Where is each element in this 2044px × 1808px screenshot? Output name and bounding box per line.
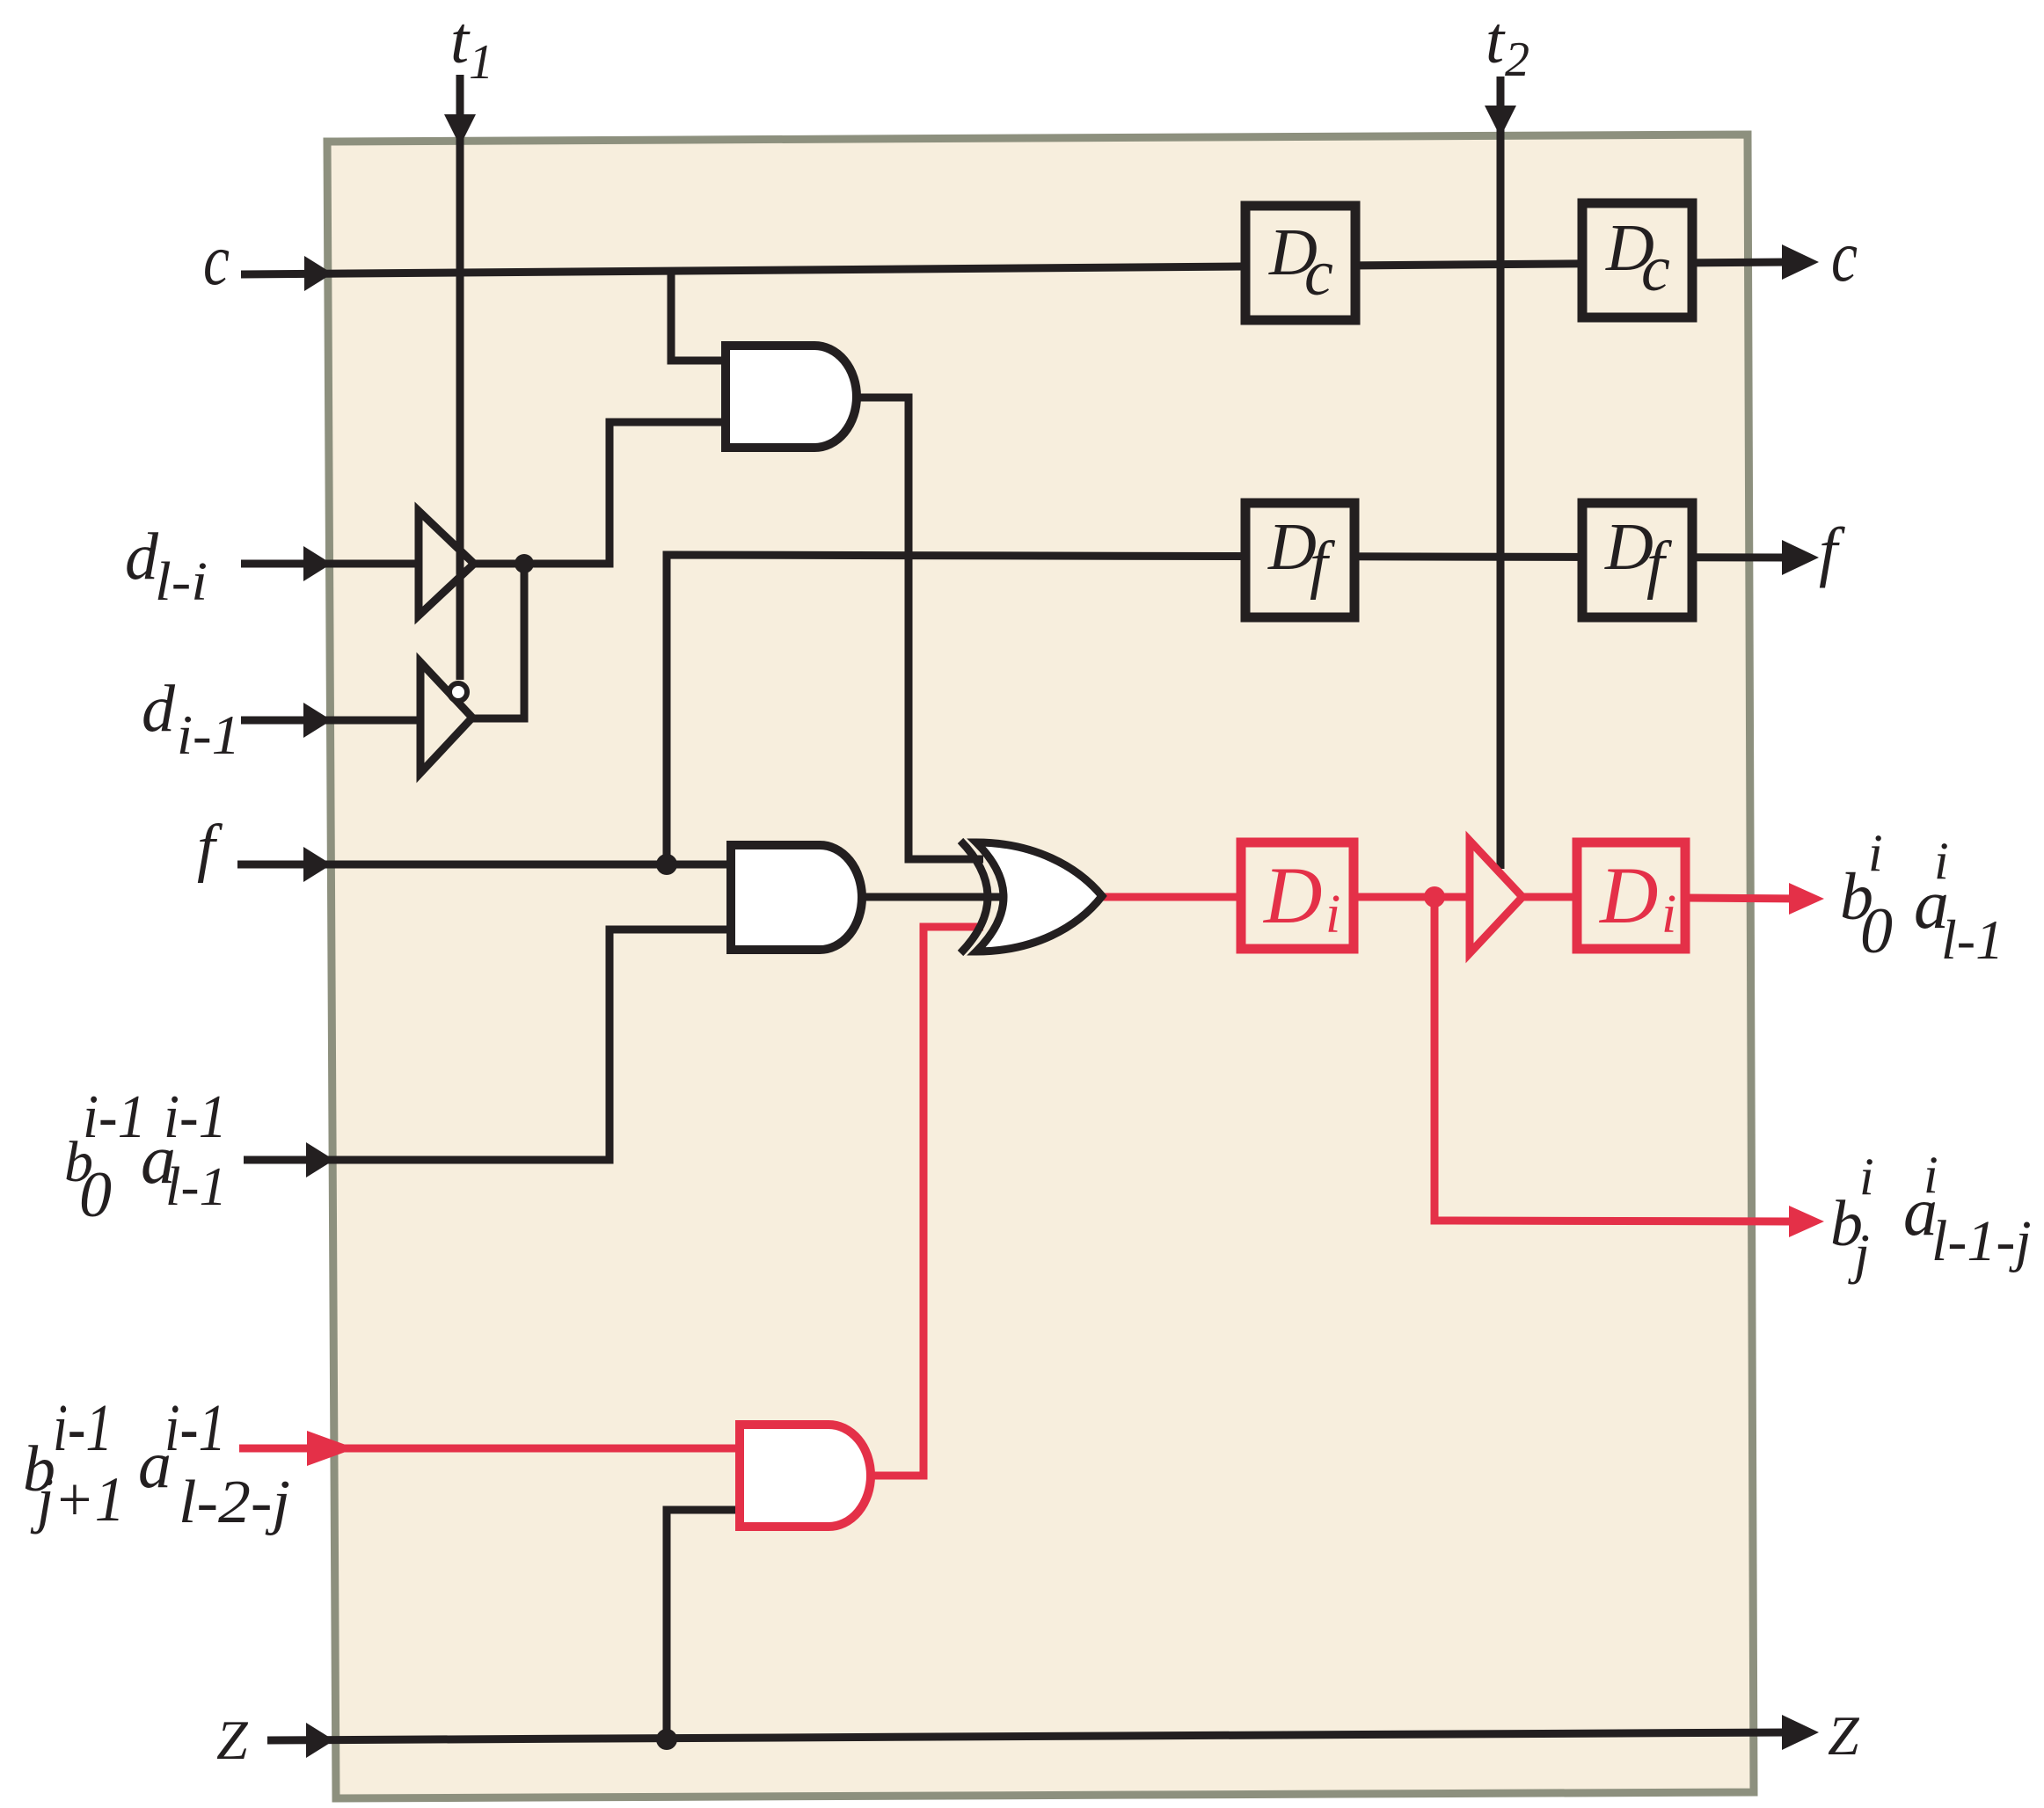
svg-text:l-1: l-1 xyxy=(1941,908,2004,971)
svg-text:c: c xyxy=(1641,233,1670,305)
svg-text:i: i xyxy=(1325,885,1340,944)
svg-text:Z: Z xyxy=(1828,1704,1860,1767)
svg-text:i-1: i-1 xyxy=(164,1391,226,1465)
svg-text:D: D xyxy=(1262,850,1322,940)
svg-text:c: c xyxy=(1831,215,1858,297)
svg-text:D: D xyxy=(1598,850,1658,940)
svg-text:i-1: i-1 xyxy=(53,1391,113,1465)
svg-text:c: c xyxy=(1304,237,1333,310)
svg-text:c: c xyxy=(203,219,230,301)
svg-text:0: 0 xyxy=(1860,895,1893,967)
svg-text:2: 2 xyxy=(1505,33,1529,87)
svg-text:f: f xyxy=(1819,514,1845,588)
svg-text:1: 1 xyxy=(469,35,493,90)
svg-text:i-1: i-1 xyxy=(177,704,240,766)
svg-text:l-i: l-i xyxy=(155,552,208,612)
svg-text:0: 0 xyxy=(79,1159,112,1231)
svg-text:i: i xyxy=(1661,885,1676,944)
svg-text:f: f xyxy=(197,812,223,884)
svg-text:l-1: l-1 xyxy=(165,1157,227,1217)
svg-text:d: d xyxy=(142,672,176,746)
svg-text:Z: Z xyxy=(216,1709,249,1771)
svg-text:t: t xyxy=(450,4,471,77)
svg-text:t: t xyxy=(1486,4,1506,77)
svg-text:l-1-j: l-1-j xyxy=(1931,1209,2032,1273)
svg-text:a: a xyxy=(138,1428,172,1502)
svg-text:l-2-j: l-2-j xyxy=(179,1469,290,1536)
svg-text:j+1: j+1 xyxy=(30,1464,125,1535)
